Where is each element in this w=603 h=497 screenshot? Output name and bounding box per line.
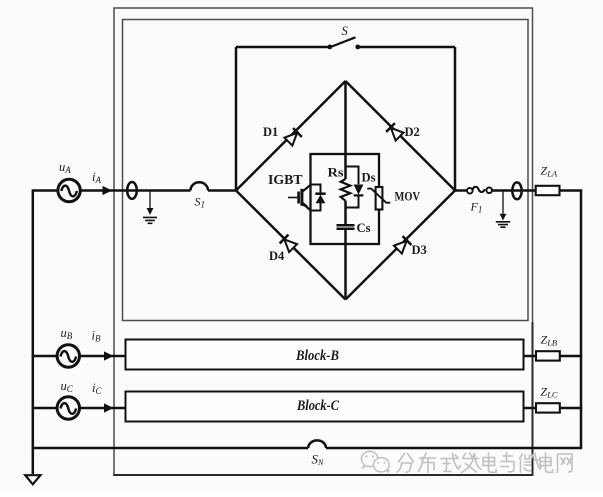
网 [558, 454, 573, 473]
AC source uC [57, 397, 79, 419]
微 [520, 454, 542, 473]
wire: ZLC to return bus [560, 407, 582, 410]
ground tap phase A [143, 191, 157, 224]
式 [441, 454, 460, 472]
neutral wire N (right of S_N) [326, 447, 582, 450]
diode Ds [354, 185, 364, 195]
svg-text:Block-B: Block-B [295, 348, 339, 364]
wire: source to bridge left node [80, 189, 236, 192]
wire: lower-left arm [236, 191, 346, 300]
switch S1 arc [191, 182, 209, 190]
varistor MOV [376, 187, 383, 210]
current arrow iB [104, 351, 114, 360]
svg-text:D3: D3 [412, 243, 427, 257]
svg-text:ZLC: ZLC [541, 385, 558, 400]
AC source uB [57, 345, 79, 367]
watermark text 分布式发电与微电网 (hand-drawn strokes) [397, 453, 572, 473]
diode D4 [280, 235, 298, 253]
wire: upper-right arm [346, 81, 456, 191]
bottom-left ground reference arrow (hollow) [25, 475, 40, 484]
svg-text:Rs: Rs [328, 165, 344, 180]
IGBT anti-parallel diode loop [311, 185, 321, 211]
wire: bypass right vertical [454, 47, 457, 191]
resistor Rs [341, 179, 351, 201]
diode Ds branch loop [346, 167, 359, 208]
ground tap phase A right [496, 191, 510, 228]
svg-text:uB: uB [61, 326, 73, 341]
neutral wire N (left of S_N) [32, 447, 309, 450]
wire: bus to source uC [32, 407, 57, 410]
svg-text:SN: SN [312, 452, 325, 468]
svg-text:uA: uA [59, 160, 71, 175]
diode D1 [284, 128, 302, 146]
load ZLC [536, 403, 560, 412]
wire: Block-B to ZLB [524, 355, 537, 358]
wire: upper-left arm [236, 81, 346, 191]
svg-text:D1: D1 [263, 125, 278, 139]
switch S [236, 46, 455, 49]
left source bus wire [32, 191, 35, 475]
current arrow iC [104, 403, 114, 412]
svg-text:F1: F1 [470, 200, 483, 215]
wire: lower-right arm [346, 191, 456, 300]
Block-A outer frame bottom edge (darker) [113, 322, 533, 475]
IGBT anti-parallel diode [316, 195, 326, 204]
wire: bus to source uB [32, 355, 57, 358]
wire: source uB to Block-B [80, 355, 126, 358]
svg-text:IGBT: IGBT [268, 172, 303, 187]
svg-text:iC: iC [92, 381, 102, 396]
diode D3 [394, 236, 412, 254]
svg-text:D4: D4 [269, 249, 285, 263]
svg-text:ZLB: ZLB [541, 333, 558, 348]
wire: bridge center column upper [344, 81, 347, 179]
load ZLB [536, 351, 560, 360]
CT ellipse phase A [127, 182, 137, 199]
svg-text:MOV: MOV [395, 189, 421, 204]
svg-text:D2: D2 [405, 125, 420, 139]
Block-B box [126, 340, 524, 370]
diode D2 [386, 123, 404, 141]
AC source uA [58, 179, 80, 201]
load ZLA [536, 186, 560, 195]
svg-text:S: S [342, 24, 349, 38]
wire: fuse to load ZLA [492, 189, 536, 192]
svg-text:Block-C: Block-C [296, 398, 339, 414]
Block-A outer boundary frame [114, 8, 533, 475]
wire: bridge center column lower [344, 201, 347, 300]
wire: source uC to Block-C [80, 407, 126, 410]
transistor IGBT [288, 185, 311, 211]
CT ellipse phase A right [512, 182, 521, 199]
svg-text:iA: iA [92, 170, 101, 185]
snubber enclosure box [311, 154, 380, 244]
与 [501, 453, 514, 472]
svg-text:S1: S1 [195, 195, 206, 210]
svg-text:Ds: Ds [362, 170, 376, 185]
电 [483, 453, 496, 472]
wire: ZLA to return bus [560, 189, 583, 192]
svg-text:uC: uC [61, 379, 74, 394]
svg-text:iB: iB [92, 329, 101, 344]
svg-text:ZLA: ZLA [541, 164, 558, 179]
watermark wechat icon [361, 451, 389, 473]
svg-text:Cs: Cs [357, 220, 371, 235]
Block-C box [126, 392, 524, 422]
wire: right node to fuse [455, 189, 467, 192]
wire: Block-C to ZLC [524, 407, 537, 410]
wire: ZLB to return bus [560, 355, 582, 358]
wire: bypass left vertical [235, 47, 238, 191]
电 [540, 453, 553, 472]
current arrow iA [103, 186, 113, 195]
load return bus wire [580, 191, 583, 449]
switch S_N arc [308, 440, 326, 448]
capacitor Cs [337, 225, 355, 229]
分 [397, 454, 414, 473]
发 [462, 453, 482, 473]
Block-A inner boundary frame [123, 20, 529, 321]
wire: bus to source uA [32, 189, 58, 192]
fuse F1 [467, 188, 473, 194]
布 [418, 453, 435, 473]
